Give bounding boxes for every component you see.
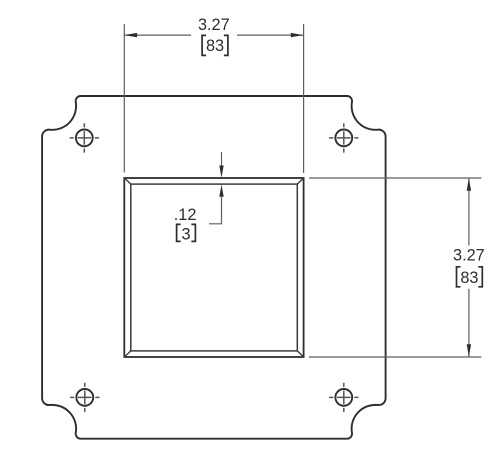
square cutout chamfer diagonals [124,178,303,357]
right dimension arrow top [467,178,471,191]
top dimension arrow right [291,33,304,37]
svg-text:3.27: 3.27 [453,247,485,265]
square cutout outer edge [124,178,303,357]
chamfer dimension lower arrow (points up to inner edge) [219,185,223,197]
mounting hole bottom-left [70,383,99,412]
chamfer dimension lower leader [209,196,222,224]
right dimension arrow bottom [467,344,471,357]
mounting hole top-left [70,123,99,152]
svg-text:83: 83 [206,37,224,55]
svg-text:83: 83 [460,269,478,287]
chamfer dimension upper arrow (points down to outer edge) [219,166,223,178]
svg-text:3.27: 3.27 [198,16,230,34]
chamfer dimension upper leader [221,152,223,167]
right dimension extension line bottom [309,356,482,358]
top dimension text [83] [202,35,228,55]
chamfer dimension text [3] [177,224,196,243]
top dimension extension line right [303,24,305,173]
svg-text:3: 3 [181,225,190,243]
top dimension arrow left [124,33,137,37]
right dimension text [83] [457,267,483,287]
plate outline [42,96,386,439]
svg-text:.12: .12 [174,206,197,224]
top dimension extension line left [123,24,125,173]
mounting hole top-right [329,123,358,152]
square cutout inner edge [131,184,297,351]
right dimension extension line top [309,177,481,179]
top dimension line [124,34,303,36]
mounting hole bottom-right [329,383,358,412]
right dimension line [468,178,470,357]
